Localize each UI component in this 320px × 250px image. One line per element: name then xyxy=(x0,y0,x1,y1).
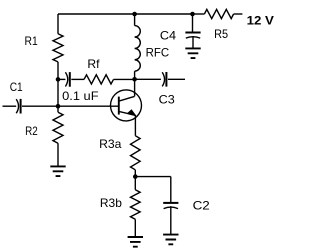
svg-text:R3a: R3a xyxy=(99,137,122,151)
svg-text:12 V: 12 V xyxy=(247,14,274,28)
svg-text:0.1 uF: 0.1 uF xyxy=(62,89,99,103)
svg-text:R5: R5 xyxy=(214,27,228,41)
svg-text:C2: C2 xyxy=(193,199,211,213)
svg-text:C1: C1 xyxy=(10,80,23,94)
svg-text:C3: C3 xyxy=(159,92,175,106)
svg-text:Rf: Rf xyxy=(87,57,100,71)
svg-text:C4: C4 xyxy=(160,28,177,42)
svg-text:RFC: RFC xyxy=(146,45,170,59)
svg-text:R2: R2 xyxy=(25,124,38,138)
svg-text:R1: R1 xyxy=(25,34,38,48)
svg-text:R3b: R3b xyxy=(100,196,122,210)
